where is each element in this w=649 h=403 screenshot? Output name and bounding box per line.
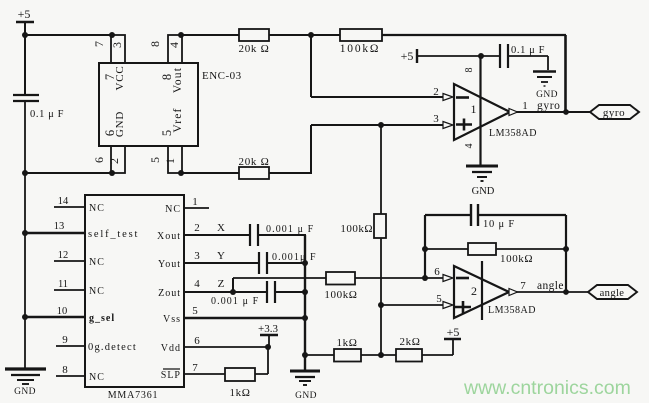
node left rail / pin13 bbox=[22, 230, 28, 236]
IC ENC-03 body bbox=[99, 63, 198, 146]
svg-text:1: 1 bbox=[522, 100, 528, 112]
svg-text:100kΩ: 100kΩ bbox=[324, 289, 357, 301]
svg-text:0.001 μ F: 0.001 μ F bbox=[211, 296, 259, 307]
node pad8 bbox=[178, 32, 184, 38]
svg-text:www.cntronics.com: www.cntronics.com bbox=[463, 377, 631, 399]
node pad6 bbox=[109, 170, 115, 176]
ground left bottom bbox=[5, 369, 46, 397]
wire MMA pin3 Yout bbox=[184, 250, 259, 263]
ENC pin5 name bbox=[160, 107, 184, 136]
svg-text:100kΩ: 100kΩ bbox=[340, 223, 373, 235]
wire feedback top op2 bbox=[425, 214, 566, 216]
svg-text:self_test: self_test bbox=[88, 229, 139, 240]
resistor 100k op2 input bbox=[324, 272, 357, 301]
node feedback left / 100k bbox=[422, 246, 428, 252]
svg-text:Xout: Xout bbox=[157, 231, 181, 242]
svg-text:2: 2 bbox=[471, 284, 477, 298]
svg-text:Vss: Vss bbox=[163, 314, 181, 325]
wire MMA pin4 Zout bbox=[184, 278, 233, 292]
svg-text:MMA7361: MMA7361 bbox=[108, 390, 159, 401]
wire MMA pin5 Vss to gnd rail bbox=[184, 305, 305, 318]
svg-text:2kΩ: 2kΩ bbox=[400, 336, 421, 348]
node divider center bbox=[378, 352, 384, 358]
svg-text:7: 7 bbox=[192, 362, 198, 374]
capacitor 10uF feedback bbox=[471, 204, 515, 230]
svg-text:Y: Y bbox=[217, 250, 225, 262]
resistor 1k SLP pullup bbox=[225, 368, 255, 399]
svg-text:0.1 μ F: 0.1 μ F bbox=[30, 109, 64, 120]
node Y gnd rail bbox=[302, 260, 308, 266]
wire X cap to gnd rail bbox=[258, 234, 306, 236]
input arrow op2 pin5 bbox=[443, 302, 453, 309]
MMA pin7 name SLP with overline bbox=[161, 369, 181, 381]
wire op1 pin3 bbox=[311, 124, 445, 126]
MMA pin9 stub bbox=[56, 334, 85, 346]
wire op2 output bbox=[516, 291, 588, 293]
svg-text:4: 4 bbox=[167, 42, 181, 48]
power +5 bottom bbox=[444, 325, 461, 339]
svg-text:1: 1 bbox=[471, 102, 477, 116]
node Z gnd rail bbox=[302, 289, 308, 295]
resistor 2k divider bbox=[396, 336, 422, 362]
MMA pin8 stub bbox=[56, 364, 85, 376]
power +3.3 bbox=[258, 323, 278, 347]
svg-text:GND: GND bbox=[472, 186, 495, 197]
wire Z signal to 100k bbox=[233, 277, 326, 279]
wire op2 pin5 bbox=[381, 304, 445, 306]
wire feedback resistor row bbox=[425, 248, 566, 250]
node divider / op2 pin5 bbox=[378, 302, 384, 308]
svg-text:NC: NC bbox=[165, 204, 181, 215]
wire resistor to pin5 node bbox=[380, 238, 382, 355]
node op1 output junction bbox=[563, 109, 569, 115]
wire 100k to output node bbox=[382, 34, 566, 36]
node op2 output junction bbox=[563, 289, 569, 295]
wire ENC pin8 to R 20k bbox=[182, 34, 239, 36]
svg-text:NC: NC bbox=[89, 203, 105, 214]
node left rail / ENC gnd wire bbox=[22, 170, 28, 176]
svg-text:100kΩ: 100kΩ bbox=[340, 43, 381, 55]
svg-text:8: 8 bbox=[62, 364, 68, 376]
input arrow op1 pin2 bbox=[443, 94, 453, 101]
svg-text:angle: angle bbox=[600, 288, 625, 299]
svg-text:NC: NC bbox=[89, 372, 105, 383]
ENC pin8 name bbox=[160, 67, 184, 93]
node pad7 bbox=[109, 32, 115, 38]
IC MMA7361 body bbox=[85, 195, 184, 387]
svg-text:gyro: gyro bbox=[603, 107, 625, 119]
wire Z up branch bbox=[232, 278, 234, 292]
wire op1 output bbox=[516, 111, 590, 113]
MMA pin14 stub bbox=[54, 196, 85, 207]
svg-text:GND: GND bbox=[295, 391, 317, 401]
wire MMA pin10 to rail bbox=[25, 306, 85, 317]
svg-text:1kΩ: 1kΩ bbox=[230, 387, 251, 399]
wire ENC pin5 to R 20k lower bbox=[182, 172, 239, 174]
svg-text:3: 3 bbox=[110, 42, 124, 48]
node Vdd junction bbox=[265, 344, 271, 350]
ENC pin7 name bbox=[103, 65, 126, 90]
svg-text:LM358AD: LM358AD bbox=[488, 305, 536, 316]
svg-text:5: 5 bbox=[192, 305, 198, 317]
op-amp U1B triangle bbox=[454, 266, 509, 318]
svg-text:NC: NC bbox=[89, 286, 105, 297]
capacitor C1 0.1uF plates bbox=[13, 95, 39, 101]
svg-text:13: 13 bbox=[54, 221, 65, 232]
svg-text:20k Ω: 20k Ω bbox=[239, 156, 270, 168]
svg-text:g_sel: g_sel bbox=[89, 313, 115, 324]
op1 pin8/pin4 power line bbox=[479, 56, 481, 166]
op2 plus sign bbox=[455, 301, 471, 313]
node top wire / op1 pin2 branch bbox=[308, 32, 314, 38]
svg-text:Zout: Zout bbox=[158, 288, 181, 299]
svg-text:7: 7 bbox=[520, 280, 526, 292]
net flag gyro bbox=[590, 105, 639, 119]
power +5 label left bbox=[16, 7, 34, 22]
wire op1 pin2 bbox=[310, 35, 312, 97]
svg-text:VCC: VCC bbox=[114, 65, 126, 90]
wire gnd rail MMA bbox=[304, 235, 306, 370]
ground top right bbox=[533, 72, 558, 101]
wire Y cap to gnd rail bbox=[267, 262, 305, 264]
node gnd rail / bottom wire bbox=[302, 352, 308, 358]
ground MMA rail bbox=[290, 371, 320, 401]
svg-text:0.001μ F: 0.001μ F bbox=[272, 252, 317, 263]
capacitor Z 0.001uF bbox=[211, 281, 275, 307]
svg-text:Vout: Vout bbox=[172, 67, 184, 93]
resistor 100k vertical bbox=[340, 214, 386, 238]
svg-text:5: 5 bbox=[148, 157, 162, 163]
node vref divider branch bbox=[378, 122, 384, 128]
svg-text:GND: GND bbox=[14, 387, 36, 397]
wire vref divider vertical bbox=[380, 125, 382, 214]
op1 minus sign bbox=[456, 96, 469, 99]
ground op1 pin4 bbox=[466, 166, 498, 197]
svg-text:0g.detect: 0g.detect bbox=[88, 342, 137, 353]
output arrow op1 bbox=[509, 109, 518, 116]
wire bottom divider bbox=[305, 354, 334, 356]
wire 100k to op2 pin6 bbox=[355, 277, 445, 279]
svg-text:10 μ F: 10 μ F bbox=[483, 219, 515, 230]
svg-text:GND: GND bbox=[536, 90, 558, 100]
wire MMA pin13 to rail bbox=[25, 221, 85, 233]
wire left rail bbox=[24, 101, 26, 369]
svg-text:1: 1 bbox=[192, 196, 198, 208]
svg-text:4: 4 bbox=[194, 278, 200, 290]
svg-text:3: 3 bbox=[433, 113, 439, 125]
svg-text:0.1 μ F: 0.1 μ F bbox=[511, 45, 545, 56]
wire Z cap left bbox=[233, 291, 267, 293]
resistor 20k lower bbox=[239, 156, 270, 179]
svg-text:Vref: Vref bbox=[172, 107, 184, 132]
MMA pin1 stub bbox=[184, 196, 209, 208]
wire MMA pin7 SLP bbox=[184, 362, 225, 374]
node Z junction bbox=[230, 289, 236, 295]
op2 power pins line bbox=[481, 261, 483, 320]
svg-text:4: 4 bbox=[464, 144, 475, 149]
svg-text:Z: Z bbox=[218, 278, 225, 290]
resistor 1k divider bbox=[334, 337, 361, 362]
wire 1k to 2k bbox=[361, 354, 396, 356]
wire +5 rail upper bbox=[24, 22, 26, 94]
node +5/top-wire junction bbox=[22, 32, 28, 38]
svg-text:14: 14 bbox=[58, 196, 69, 207]
ENC-03 pin 5 pad bbox=[168, 146, 182, 173]
wire 1k to +3.3 node bbox=[255, 347, 268, 374]
svg-text:3: 3 bbox=[194, 250, 200, 262]
svg-text:11: 11 bbox=[58, 279, 68, 290]
svg-text:angle: angle bbox=[537, 280, 564, 292]
svg-text:9: 9 bbox=[62, 334, 68, 346]
wire MMA pin6 Vdd bbox=[184, 335, 268, 347]
wire cap to gnd bbox=[508, 56, 548, 70]
wire 2k to +5 bbox=[422, 339, 453, 355]
ENC-03 pin 6 pad bbox=[111, 146, 125, 173]
svg-text:6: 6 bbox=[194, 335, 200, 347]
wire 20k to node bbox=[269, 34, 340, 36]
wire feedback right vertical bbox=[565, 215, 567, 292]
svg-text:100kΩ: 100kΩ bbox=[500, 253, 533, 265]
node feedback right / 100k bbox=[563, 246, 569, 252]
svg-text:1: 1 bbox=[163, 158, 177, 164]
svg-text:gyro: gyro bbox=[537, 100, 560, 112]
svg-text:0.001 μ F: 0.001 μ F bbox=[266, 224, 314, 235]
net flag angle bbox=[588, 285, 637, 299]
resistor 20k top bbox=[239, 29, 270, 55]
svg-text:5: 5 bbox=[436, 293, 442, 305]
svg-text:8: 8 bbox=[148, 41, 162, 47]
svg-text:6: 6 bbox=[92, 157, 106, 163]
output arrow op2 bbox=[509, 289, 518, 296]
input arrow op2 pin6 bbox=[443, 275, 453, 282]
power +5 op1 bbox=[401, 49, 417, 63]
node pad5 bbox=[178, 170, 184, 176]
node pin8 junction bbox=[478, 53, 484, 59]
ENC pin6 name bbox=[103, 111, 126, 137]
svg-text:SLP: SLP bbox=[161, 370, 181, 381]
svg-text:6: 6 bbox=[434, 266, 440, 278]
svg-text:12: 12 bbox=[58, 250, 69, 261]
ENC-03 pin 8 pad bbox=[168, 35, 182, 63]
svg-text:8: 8 bbox=[464, 68, 475, 73]
wire feedback left vertical bbox=[424, 215, 426, 278]
svg-text:Vdd: Vdd bbox=[161, 343, 181, 354]
svg-text:+3.3: +3.3 bbox=[258, 323, 278, 335]
svg-text:+5: +5 bbox=[447, 325, 460, 339]
op2 minus sign bbox=[456, 277, 469, 280]
svg-text:ENC-03: ENC-03 bbox=[202, 70, 242, 82]
svg-text:1kΩ: 1kΩ bbox=[337, 337, 358, 349]
MMA pin12 stub bbox=[54, 250, 85, 261]
svg-text:2: 2 bbox=[107, 158, 121, 164]
node left rail / pin10 bbox=[22, 314, 28, 320]
capacitor 0.1uF op1 bbox=[500, 44, 545, 68]
node feedback / pin6 bbox=[422, 275, 428, 281]
wire 20k lower to op1 pin3 bbox=[269, 172, 312, 174]
ENC-03 pin 7 pad bbox=[111, 35, 125, 63]
input arrow op1 pin3 bbox=[443, 122, 453, 129]
svg-text:+5: +5 bbox=[401, 49, 414, 63]
wire top +5 to ENC pin7 bbox=[25, 34, 111, 36]
svg-text:Yout: Yout bbox=[158, 259, 181, 270]
capacitor X 0.001uF bbox=[250, 224, 314, 246]
op-amp U1A triangle bbox=[454, 84, 510, 140]
svg-text:7: 7 bbox=[92, 41, 106, 47]
node Vss gnd rail bbox=[302, 315, 308, 321]
svg-text:GND: GND bbox=[114, 111, 126, 137]
svg-text:NC: NC bbox=[89, 257, 105, 268]
svg-text:2: 2 bbox=[194, 222, 200, 234]
svg-text:10: 10 bbox=[57, 306, 68, 317]
op1 plus sign bbox=[456, 119, 472, 131]
svg-text:+5: +5 bbox=[18, 7, 31, 21]
MMA pin11 stub bbox=[54, 279, 85, 290]
svg-text:2: 2 bbox=[433, 86, 439, 98]
wire ENC pin6 to rail bbox=[25, 172, 111, 174]
wire Z cap to gnd rail bbox=[275, 291, 305, 293]
resistor 100k feedback op2 bbox=[468, 243, 533, 265]
svg-text:20k Ω: 20k Ω bbox=[239, 43, 270, 55]
capacitor Y 0.001uF bbox=[259, 252, 317, 274]
svg-text:LM358AD: LM358AD bbox=[489, 128, 537, 139]
wire +5 to cap bbox=[417, 55, 500, 57]
svg-text:X: X bbox=[217, 222, 225, 234]
resistor 100k feedback op1 bbox=[340, 29, 382, 55]
wire MMA pin2 Xout bbox=[184, 222, 250, 235]
